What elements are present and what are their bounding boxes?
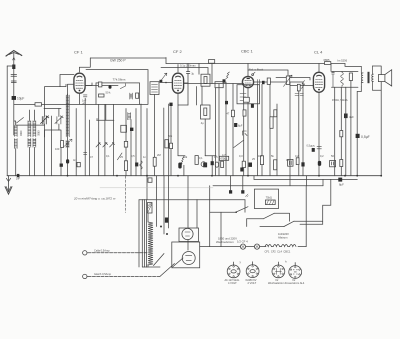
svg-text:0,5: 0,5 bbox=[214, 155, 218, 159]
box cap bars x290 bbox=[289, 161, 291, 165]
CF1 cathode cap bbox=[83, 95, 87, 97]
vertical wire x105 bbox=[104, 104, 106, 175]
trimmer rail riser bbox=[105, 104, 107, 120]
tube CF1 grid lead bbox=[68, 84, 74, 95]
comp row: resistor x243 bbox=[242, 161, 245, 167]
cap x319 bbox=[317, 146, 321, 148]
comp row: box cap x332 bbox=[330, 161, 336, 167]
pilot lamp 3 pins bbox=[273, 266, 283, 277]
svg-text:CL 4: CL 4 bbox=[314, 50, 323, 55]
bus junction dot bbox=[356, 175, 358, 177]
svg-text:y: y bbox=[240, 260, 242, 264]
vertical wire x136 bbox=[135, 109, 137, 176]
IF coil winding B bbox=[33, 121, 36, 137]
screen bus right bbox=[161, 68, 208, 74]
svg-text:0060: 0060 bbox=[37, 130, 40, 136]
comp row: resistor x196 bbox=[195, 156, 198, 165]
mains dropper hatched bbox=[148, 203, 153, 214]
pilot lamp 4 stub bbox=[294, 263, 296, 266]
cathode blob x180 bbox=[178, 163, 181, 169]
transformer bottom wire bbox=[147, 266, 160, 268]
svg-text:Wechselstrom: Wechselstrom bbox=[216, 240, 234, 244]
transformer primary bottom wire bbox=[357, 87, 361, 92]
output rail drop bbox=[330, 64, 332, 72]
output transformer core bbox=[368, 72, 370, 83]
wire blob b bbox=[242, 176, 244, 191]
comp row: resistor x275 bbox=[274, 160, 277, 170]
vertical wire x341 bbox=[340, 87, 342, 176]
box resistor small bbox=[99, 94, 105, 97]
blob x319 bbox=[318, 161, 321, 166]
resistor x62 mid bbox=[61, 141, 64, 148]
osc line blob bbox=[66, 159, 69, 163]
capacitor 10uF (black) bbox=[12, 96, 16, 100]
tube CF2 cathode dot bbox=[177, 90, 179, 92]
stub x254 bbox=[253, 176, 255, 180]
vertical wire x350 bbox=[350, 81, 352, 176]
vertical wire x257 bbox=[257, 85, 259, 176]
box2 switch diagonal bbox=[173, 258, 184, 267]
tube CL4 anode cap bbox=[317, 74, 322, 77]
svg-text:50k: 50k bbox=[183, 155, 188, 159]
rectifier link wire bbox=[187, 240, 189, 251]
mains lead 2 bbox=[88, 275, 160, 277]
svg-text:0,1: 0,1 bbox=[286, 158, 290, 162]
svg-text:0,2: 0,2 bbox=[320, 154, 324, 158]
tube CL4 grid rows bbox=[315, 80, 323, 88]
svg-text:h: h bbox=[285, 259, 287, 263]
mains riser bbox=[209, 186, 211, 247]
svg-text:GW 250 P: GW 250 P bbox=[110, 59, 126, 63]
connector box small bbox=[148, 178, 152, 182]
fuse link wire bbox=[246, 246, 266, 248]
vertical wire x243 bbox=[243, 84, 245, 176]
ground arrow bbox=[8, 176, 10, 192]
top bus left riser bbox=[80, 58, 91, 67]
svg-text:77k 56ms: 77k 56ms bbox=[113, 78, 127, 82]
cathode drop bbox=[183, 165, 185, 176]
cap 0,5uF blob bbox=[356, 134, 360, 138]
comp row: resistor x166 bbox=[165, 140, 168, 148]
antenna small cap bbox=[11, 81, 16, 83]
switch B diagonal bbox=[263, 213, 274, 219]
svg-text:CF1 CF2 CL4 CBC1: CF1 CF2 CL4 CBC1 bbox=[265, 250, 291, 254]
blob x235 y124 bbox=[234, 123, 237, 127]
main bus (chassis) bbox=[7, 175, 381, 177]
CF2 top cap lead bbox=[183, 64, 188, 84]
vertical wire x113 bbox=[113, 104, 115, 175]
tube CBC1 bottom lead bbox=[247, 88, 249, 176]
detector box under CBC1 bbox=[237, 85, 260, 104]
pilot lamp 4 socket bbox=[289, 266, 302, 279]
volume pot arrow bbox=[284, 75, 293, 86]
transformer top wire bbox=[139, 199, 245, 201]
svg-text:CBC 1: CBC 1 bbox=[241, 49, 254, 54]
vertical wire x197 bbox=[196, 87, 198, 106]
anode chain CF1: jog bbox=[85, 83, 92, 86]
output transformer secondary bbox=[372, 66, 374, 90]
trimmer arrows mid bbox=[96, 142, 101, 147]
svg-text:100: 100 bbox=[55, 147, 60, 151]
pilot lamp 4 inner bbox=[293, 270, 297, 274]
antenna series coil bbox=[12, 65, 15, 70]
resistor x275b bbox=[274, 110, 277, 117]
tube CF2 envelope bbox=[172, 73, 183, 93]
speaker return wire bbox=[380, 90, 382, 176]
vertical 306 bbox=[306, 176, 308, 186]
osc coil winding bbox=[66, 95, 69, 137]
link x188 to tube bbox=[178, 104, 188, 106]
hook symbol bbox=[242, 131, 247, 136]
svg-text:5k: 5k bbox=[271, 154, 274, 158]
lower box resistor bbox=[204, 108, 207, 116]
comp row: circle x203 bbox=[201, 162, 206, 167]
stub x290 bbox=[289, 176, 291, 186]
box component Trf bbox=[98, 82, 102, 87]
vertical wire x126 bbox=[125, 109, 127, 176]
svg-text:0,3: 0,3 bbox=[239, 154, 243, 158]
grid line dot bbox=[165, 82, 167, 84]
osc coil lower winding bbox=[66, 141, 69, 148]
bus junction dot bbox=[67, 175, 69, 177]
vertical wire x303 bbox=[302, 83, 304, 176]
vertical wire x85 bbox=[84, 98, 86, 175]
cathode rail right bbox=[205, 155, 216, 157]
svg-text:4µ: 4µ bbox=[201, 122, 204, 125]
avc cap bbox=[258, 80, 260, 85]
output rails bbox=[332, 71, 359, 87]
heater supply wire bbox=[200, 246, 241, 248]
fuse 1 bbox=[240, 244, 245, 249]
switch A diagonal bbox=[236, 207, 248, 213]
svg-text:0060: 0060 bbox=[20, 130, 23, 136]
svg-text:CF 1: CF 1 bbox=[74, 50, 83, 55]
CF2 anode wire bbox=[183, 83, 242, 85]
switch diag x119 bbox=[117, 153, 122, 160]
svg-text:0,5µF: 0,5µF bbox=[361, 135, 370, 139]
svg-text:47: 47 bbox=[90, 155, 93, 159]
band filter box bbox=[96, 83, 140, 105]
pilot lamp 2 pins bbox=[248, 266, 258, 277]
tuning gang section: frame wires bbox=[44, 108, 61, 110]
bus junction dot bbox=[211, 175, 213, 177]
power transformer core left bbox=[142, 200, 146, 268]
tube CBC1 cathode marks bbox=[246, 85, 251, 87]
comp row: blob x250 bbox=[249, 163, 253, 167]
bus component box bbox=[209, 60, 215, 64]
transformer right drop bbox=[196, 200, 198, 229]
resistor 1M horizontal bbox=[35, 103, 42, 106]
tuner verticals bbox=[45, 109, 59, 176]
tube CF2 top lead bbox=[177, 65, 179, 73]
vertical wire x171 bbox=[170, 106, 172, 176]
svg-text:47: 47 bbox=[227, 113, 230, 116]
switch C diagonal bbox=[284, 221, 294, 226]
IF can bars bbox=[152, 85, 158, 93]
pilot lamp 4 pins bbox=[290, 266, 300, 277]
output transformer primary bbox=[361, 66, 363, 86]
volume pot bbox=[286, 76, 289, 85]
resistor x340 low bbox=[340, 160, 343, 167]
vertical wire x168 bbox=[168, 104, 170, 176]
wire antenna to grid resistor bbox=[14, 103, 96, 105]
IF can CF2 right box bbox=[201, 74, 210, 86]
svg-text:4 VOLT: 4 VOLT bbox=[228, 281, 237, 285]
blob below bus a bbox=[229, 190, 232, 193]
fuse 2 bbox=[254, 244, 259, 249]
tube CBC1 top-right terminal bbox=[252, 74, 254, 76]
coil section verticals bbox=[14, 110, 35, 176]
CF2 top cap bbox=[186, 72, 189, 74]
vertical wire x298 bbox=[298, 91, 300, 176]
avc blob bbox=[262, 81, 265, 84]
IF can cap blob bbox=[160, 80, 163, 83]
wire blob a bbox=[230, 176, 232, 191]
speaker feed wire bbox=[345, 64, 361, 67]
resistor 75k hatched bbox=[265, 200, 275, 205]
tube CL4 bottom lead bbox=[318, 92, 320, 175]
det blob bbox=[223, 79, 226, 82]
vertical wire x219 bbox=[218, 84, 220, 176]
tube CF2 anode cap bbox=[176, 75, 181, 78]
box x121 y125 bbox=[121, 125, 127, 132]
trimmer rail bbox=[97, 119, 114, 121]
blob x61 low bbox=[60, 164, 63, 167]
det resistor zigzag bbox=[226, 72, 230, 79]
IF can trimmer arrow bbox=[161, 73, 167, 80]
vertical wire x233 bbox=[232, 84, 234, 176]
right box resistor bbox=[204, 77, 207, 84]
avc resistor vertical bbox=[267, 78, 270, 84]
switch cluster box bbox=[254, 189, 278, 208]
svg-text:25: 25 bbox=[252, 157, 255, 161]
heater chain end wire bbox=[298, 246, 306, 248]
third bus bbox=[254, 178, 357, 180]
switch B riser bbox=[246, 219, 248, 227]
tube CL4 grid lead bbox=[290, 85, 313, 87]
cathode zigzag resistor bbox=[181, 157, 184, 165]
winding col x129 bbox=[128, 113, 131, 120]
rect around rectifier 2 bbox=[172, 242, 200, 268]
pilot lamp 1 pins bbox=[229, 266, 239, 277]
switch mini symbol bbox=[245, 194, 248, 197]
svg-text:Freuerstrom AL4: Freuerstrom AL4 bbox=[285, 281, 305, 285]
top bus left bbox=[90, 57, 166, 59]
pilot lamp 2 socket bbox=[246, 265, 259, 278]
screen bus bbox=[86, 70, 148, 105]
resistor x78 low bbox=[77, 162, 80, 166]
pilot lamp 1 socket bbox=[227, 265, 240, 278]
svg-text:Ncl. u Buck: Ncl. u Buck bbox=[249, 68, 264, 72]
vertical wire x327b bbox=[334, 87, 336, 176]
bus junction dot bbox=[318, 175, 320, 177]
comp row: blob x205 bbox=[203, 163, 207, 168]
tube CF1 grid rows bbox=[76, 80, 84, 88]
tube CL4 top lead bbox=[318, 64, 320, 73]
junction dots transformer 2 bbox=[166, 233, 168, 235]
tube CF2 bottom lead bbox=[177, 93, 179, 156]
transformer bottom close bbox=[142, 266, 146, 268]
oscillator coil column bbox=[67, 94, 69, 176]
vertical wire x270 bbox=[269, 84, 271, 175]
vertical wire x212 bbox=[211, 64, 213, 84]
trimmer arrows mid 2 bbox=[103, 142, 108, 147]
svg-text:lm 5256: lm 5256 bbox=[338, 59, 348, 63]
rect around rectifier 1 bbox=[179, 228, 199, 242]
pilot lamp 1 stub bbox=[233, 262, 235, 265]
mains plug 1 bbox=[83, 251, 87, 255]
primary winding bbox=[148, 222, 153, 265]
IF can drop bbox=[154, 95, 156, 176]
tube CL4 grid lead upper bbox=[276, 78, 310, 81]
vertical wire x188 bbox=[187, 83, 189, 105]
svg-text:3µ: 3µ bbox=[191, 73, 194, 76]
box resistor 2 bbox=[136, 93, 139, 98]
switch C output bbox=[294, 220, 323, 222]
tube CF1 top lead bbox=[79, 67, 81, 72]
B+ drop wire bbox=[356, 92, 358, 176]
svg-text:1n: 1n bbox=[143, 155, 146, 159]
tuning cap 2 bbox=[55, 116, 63, 124]
coupling caps x297 bbox=[295, 94, 303, 96]
top bus step bbox=[165, 58, 167, 64]
svg-text:0,5: 0,5 bbox=[311, 144, 315, 148]
grid squiggle bbox=[302, 81, 305, 89]
svg-text:75kΩ: 75kΩ bbox=[266, 195, 272, 199]
vertical wire x345 bbox=[345, 87, 347, 176]
bus junction dot bbox=[177, 175, 179, 177]
cap x171 y143 bbox=[170, 143, 173, 148]
heater riser bbox=[305, 186, 307, 247]
svg-text:0,1µ 250max: 0,1µ 250max bbox=[180, 64, 196, 68]
tube CF1 envelope bbox=[74, 73, 85, 93]
can oval x217 bbox=[215, 162, 218, 167]
mains switch diagonal 2 bbox=[160, 264, 175, 277]
vertical wire x290 bbox=[289, 82, 291, 176]
det box drop bbox=[214, 88, 216, 176]
svg-text:2 VOLT: 2 VOLT bbox=[248, 281, 257, 285]
tube CL4 envelope bbox=[313, 72, 324, 92]
svg-text:2M: 2M bbox=[157, 153, 161, 157]
output cap bbox=[332, 71, 335, 87]
power section boundary left bbox=[138, 200, 140, 267]
junction b with cap bbox=[17, 174, 20, 177]
vertical wire x147 bbox=[146, 109, 148, 200]
svg-text:Calla 0,5Amp: Calla 0,5Amp bbox=[94, 249, 110, 253]
det box bbox=[215, 82, 223, 88]
svg-text:8µF: 8µF bbox=[339, 183, 344, 187]
svg-text:25: 25 bbox=[120, 155, 123, 159]
tube CF1 anode lead bbox=[85, 85, 118, 87]
pilot lamp 1 inner bbox=[231, 270, 236, 273]
svg-text:470kΩ: 470kΩ bbox=[220, 158, 227, 161]
switch B output bbox=[274, 213, 289, 221]
faint scan line bbox=[100, 187, 213, 189]
svg-text:4,7: 4,7 bbox=[222, 153, 226, 157]
IF coil winding A2 bbox=[28, 121, 31, 137]
pilot lamp 3 socket bbox=[272, 265, 285, 278]
tube CBC1 anode bar bbox=[247, 78, 250, 79]
svg-text:0,5: 0,5 bbox=[131, 154, 135, 158]
tube CL4 cathode dot bbox=[318, 89, 320, 91]
cap 0,5u blob mid bbox=[312, 148, 315, 152]
resistor x233 y110 bbox=[231, 110, 234, 117]
box drop x205 bbox=[204, 119, 206, 156]
switch B feed bbox=[247, 218, 264, 220]
bus junction dot bbox=[146, 175, 148, 177]
heater chain coils bbox=[265, 245, 296, 247]
resistor 6865 on bus bbox=[325, 62, 331, 65]
pilot lamp 3 stub bbox=[277, 262, 279, 265]
vertical wire x131 bbox=[130, 120, 132, 176]
avc link line bbox=[248, 70, 288, 76]
antenna connector arrow bbox=[13, 58, 15, 61]
tube CF1 bottom lead bbox=[79, 93, 81, 104]
resistor x244 y110 bbox=[243, 110, 246, 116]
svg-text:1nF: 1nF bbox=[16, 177, 21, 180]
fuse 1 cross bbox=[241, 245, 244, 248]
CF2 grid wire bbox=[160, 82, 173, 84]
tube CF1 anode cap bbox=[77, 75, 82, 78]
svg-text:0,1: 0,1 bbox=[106, 154, 110, 158]
vertical wire x277 bbox=[276, 104, 278, 176]
mains switch diagonal bbox=[154, 254, 165, 266]
tuner link lead bbox=[45, 84, 67, 108]
right step wire bbox=[300, 179, 331, 224]
comp row: blob x136 bbox=[135, 163, 138, 167]
trimmer arrows mid 3 bbox=[110, 142, 115, 147]
svg-text:Allstrom: Allstrom bbox=[278, 235, 287, 239]
CBC1 anode wire bbox=[254, 81, 303, 83]
dropper hatching bbox=[148, 203, 152, 212]
vertical wire x98 bbox=[98, 104, 100, 175]
junction dots transformer bbox=[160, 226, 162, 228]
svg-text:20 m ein/M7-lang u. ca.1872 m: 20 m ein/M7-lang u. ca.1872 m bbox=[73, 197, 116, 201]
second bus bbox=[213, 185, 323, 187]
cap blob transformer bbox=[165, 218, 168, 223]
rectifier 1 pins bbox=[185, 232, 190, 236]
pilot lamp 2 stub bbox=[252, 262, 254, 265]
switch mid diag bbox=[234, 141, 243, 148]
svg-text:1M: 1M bbox=[258, 154, 262, 158]
pilot lamp 3 inner bbox=[275, 268, 281, 274]
vertical wire x202 bbox=[201, 86, 203, 105]
vertical wire x164 bbox=[163, 108, 165, 176]
svg-text:50k: 50k bbox=[168, 134, 173, 138]
svg-text:8µF: 8µF bbox=[238, 125, 243, 128]
tube CF2 grid rows bbox=[174, 80, 182, 88]
vertical wire x77 bbox=[75, 109, 77, 176]
svg-text:50 k: 50 k bbox=[106, 91, 112, 95]
box switch bbox=[120, 84, 125, 89]
antenna bbox=[6, 51, 22, 57]
tube CF1 left feedback wire bbox=[60, 75, 74, 87]
svg-text:0,2: 0,2 bbox=[295, 154, 299, 158]
output coil bbox=[341, 71, 344, 86]
bottom verticals into transformer bbox=[157, 176, 189, 234]
bus junction dot bbox=[344, 175, 346, 177]
blob below bus b bbox=[241, 190, 244, 193]
switch A dot bbox=[235, 211, 237, 213]
box coil bbox=[130, 93, 133, 99]
cap 4uF blob bbox=[344, 114, 348, 119]
comp row: blob x303 bbox=[301, 162, 304, 166]
cathode rail left bbox=[178, 155, 185, 157]
switch C feed bbox=[260, 226, 284, 228]
boxed label 470k bbox=[219, 156, 228, 160]
resistor x341 bbox=[340, 131, 343, 137]
cap box x246 y97 bbox=[244, 97, 250, 102]
